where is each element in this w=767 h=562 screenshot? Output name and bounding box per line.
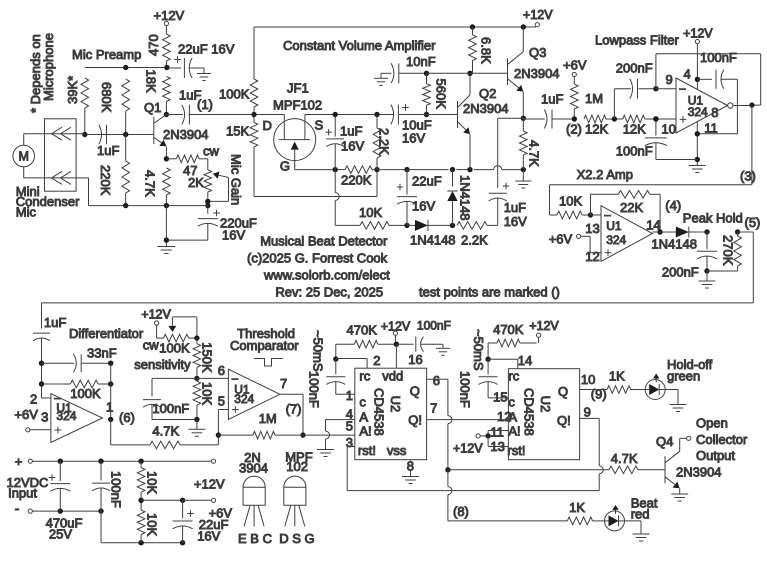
svg-text:560K: 560K [434,79,449,110]
svg-text:Comparator: Comparator [230,338,299,353]
svg-text:Q: Q [558,384,568,399]
svg-text:15: 15 [493,390,507,405]
svg-text:6: 6 [433,373,440,388]
svg-text:U2: U2 [538,396,553,413]
svg-text:c: c [508,394,515,409]
svg-text:Mic Preamp: Mic Preamp [72,47,141,62]
svg-text:6: 6 [218,363,225,378]
svg-text:2N3904: 2N3904 [163,127,209,142]
svg-text:22uF 16V: 22uF 16V [178,42,235,57]
svg-text:324: 324 [56,409,76,423]
svg-text:Differentiator: Differentiator [69,326,144,341]
svg-text:A!: A! [359,423,371,438]
svg-text:Output: Output [696,448,735,463]
svg-text:11: 11 [704,121,718,136]
svg-text:Q!: Q! [408,413,422,428]
svg-text:Peak Hold: Peak Hold [683,211,743,226]
svg-text:www.solorb.com/elect: www.solorb.com/elect [263,268,390,283]
svg-text:10K: 10K [200,382,215,405]
svg-text:rc: rc [359,368,370,383]
svg-text:16V: 16V [341,139,364,154]
svg-text:2.2K: 2.2K [461,233,488,248]
svg-text:~50mS: ~50mS [471,329,486,371]
svg-text:16V: 16V [402,131,425,146]
svg-text:1uF: 1uF [97,143,119,158]
svg-text:Rev: 25 Dec, 2025: Rev: 25 Dec, 2025 [275,285,383,300]
svg-text:4.7K: 4.7K [611,451,638,466]
svg-text:12K: 12K [585,122,608,137]
svg-text:33nF: 33nF [87,346,117,361]
svg-text:4.7K: 4.7K [143,170,158,197]
svg-text:5: 5 [218,393,225,408]
svg-text:1M: 1M [585,91,603,106]
svg-text:1N4148: 1N4148 [651,237,697,252]
svg-text:+12V: +12V [141,308,171,322]
svg-text:S: S [315,118,324,133]
svg-text:+12V: +12V [453,442,483,456]
svg-text:16V: 16V [504,214,527,229]
svg-text:100K: 100K [159,341,190,356]
svg-text:6.8K: 6.8K [479,37,494,64]
svg-text:1uF: 1uF [44,315,66,330]
svg-text:CD4538: CD4538 [371,388,386,436]
svg-text:Musical Beat Detector: Musical Beat Detector [260,234,388,249]
svg-text:22uF: 22uF [412,174,442,189]
svg-text:270K: 270K [721,235,736,266]
svg-text:vss: vss [387,443,407,458]
svg-text:150K: 150K [200,342,215,373]
svg-text:1: 1 [106,400,113,415]
svg-text:Constant Volume Amplifier: Constant Volume Amplifier [283,38,436,53]
svg-text:(8): (8) [453,504,469,519]
svg-text:U1: U1 [606,219,622,233]
svg-text:100K: 100K [219,87,250,102]
svg-text:2N3904: 2N3904 [676,465,722,480]
svg-text:3: 3 [41,410,48,425]
svg-text:10nF: 10nF [406,54,436,69]
svg-text:2N3904: 2N3904 [463,101,509,116]
svg-text:9: 9 [584,405,591,420]
svg-text:U2: U2 [388,396,403,413]
svg-text:9: 9 [666,72,673,87]
svg-text:Q4: Q4 [656,434,673,449]
svg-text:4.7K: 4.7K [527,140,542,167]
svg-text:1K: 1K [569,500,585,515]
svg-text:-: - [15,500,20,516]
svg-text:16: 16 [408,352,422,367]
svg-text:(7): (7) [286,402,302,417]
svg-text:Open: Open [696,416,728,431]
svg-text:Lowpass Filter: Lowpass Filter [595,33,679,48]
svg-text:10: 10 [581,372,595,387]
svg-text:100nF: 100nF [307,371,322,408]
svg-text:12K: 12K [623,122,646,137]
svg-text:100nF: 100nF [700,50,737,65]
svg-text:Microphone: Microphone [41,33,56,101]
svg-text:+12V: +12V [154,8,185,23]
svg-text:+6V: +6V [14,407,38,422]
svg-text:200nF: 200nF [662,265,699,280]
svg-text:1uF: 1uF [340,124,362,139]
svg-text:2.2K: 2.2K [377,128,392,155]
svg-text:M: M [18,150,28,164]
svg-text:cw: cw [143,338,160,353]
svg-text:A!: A! [508,423,520,438]
svg-text:rst!: rst! [507,443,525,458]
svg-text:(5): (5) [745,215,761,230]
svg-text:cw: cw [203,144,220,159]
svg-text:100nF: 100nF [417,319,451,333]
svg-text:102: 102 [286,459,308,474]
svg-text:green: green [667,368,700,383]
svg-text:vdd: vdd [382,368,403,383]
svg-text:12: 12 [497,409,511,424]
svg-text:D S G: D S G [279,531,314,546]
svg-text:(c)2025 G. Forrest Cook: (c)2025 G. Forrest Cook [247,251,388,266]
svg-text:220K: 220K [98,165,113,196]
svg-text:11: 11 [490,425,504,440]
svg-text:470K: 470K [493,322,524,337]
svg-text:2: 2 [373,353,380,368]
svg-text:Q1: Q1 [144,100,161,115]
svg-text:5: 5 [346,419,353,434]
svg-text:Mic: Mic [16,205,37,220]
svg-text:2: 2 [30,392,37,407]
svg-text:test points are marked (): test points are marked () [419,285,560,300]
svg-text:~50mS: ~50mS [311,330,326,372]
svg-text:324: 324 [234,392,254,406]
svg-text:Collector: Collector [696,432,748,447]
svg-text:12: 12 [585,249,599,264]
svg-text:470: 470 [146,34,161,56]
svg-text:1K: 1K [609,368,625,383]
svg-text:2K: 2K [188,175,204,190]
svg-text:16V: 16V [222,228,245,243]
svg-text:c: c [359,394,366,409]
svg-text:8: 8 [711,105,718,120]
svg-text:14: 14 [518,353,532,368]
svg-text:4: 4 [684,67,691,82]
svg-text:+: + [15,454,23,469]
svg-text:100nF: 100nF [458,371,473,408]
svg-text:(3): (3) [740,169,756,184]
svg-text:7: 7 [430,400,437,415]
svg-text:1M: 1M [259,411,277,426]
svg-text:10K: 10K [559,194,582,209]
svg-text:470K: 470K [347,322,378,337]
svg-text:1N4148: 1N4148 [458,175,473,221]
svg-text:100nF: 100nF [616,144,653,159]
svg-text:39K*: 39K* [65,76,80,104]
svg-text:7: 7 [280,376,287,391]
svg-text:MPF102: MPF102 [273,98,322,113]
svg-text:(4): (4) [665,198,681,213]
svg-text:(1): (1) [197,97,213,112]
svg-text:CD4538: CD4538 [521,388,536,436]
svg-text:3904: 3904 [239,461,268,476]
svg-text:1uF: 1uF [541,92,563,107]
svg-text:Q2: Q2 [479,86,496,101]
svg-text:1: 1 [346,388,353,403]
svg-text:+6V: +6V [563,58,587,73]
svg-text:25V: 25V [49,527,72,542]
svg-text:2N3904: 2N3904 [514,66,560,81]
svg-text:E B C: E B C [238,531,272,546]
svg-text:100K: 100K [70,386,101,401]
svg-text:324: 324 [688,105,708,119]
svg-text:Input: Input [8,486,37,501]
svg-text:+12V: +12V [529,319,559,333]
svg-text:100nF: 100nF [152,401,189,416]
svg-text:1N4148: 1N4148 [410,233,456,248]
svg-text:rst!: rst! [358,443,376,458]
svg-text:10K: 10K [145,513,160,536]
svg-text:Q3: Q3 [529,45,546,60]
svg-text:1uF: 1uF [504,200,526,215]
svg-text:324: 324 [606,233,626,247]
svg-text:Q: Q [410,384,420,399]
svg-text:10: 10 [661,122,675,137]
svg-text:15K: 15K [226,124,249,139]
svg-text:sensitivity: sensitivity [134,357,191,372]
svg-text:+12V: +12V [194,477,225,492]
svg-text:18K: 18K [143,70,158,93]
svg-text:Mic Gain: Mic Gain [229,154,244,205]
svg-text:G: G [280,159,290,174]
svg-text:22K: 22K [620,200,643,215]
svg-text:+6V: +6V [549,232,573,247]
svg-text:D: D [263,118,272,133]
svg-text:(9): (9) [591,387,607,402]
svg-text:16V: 16V [197,529,220,544]
svg-text:10K: 10K [145,471,160,494]
svg-text:red: red [631,507,650,522]
svg-text:+12V: +12V [523,8,553,22]
svg-text:–: – [680,83,687,95]
svg-text:(6): (6) [119,410,135,425]
svg-text:4.7K: 4.7K [152,424,179,439]
svg-text:100nF: 100nF [109,471,124,508]
svg-text:(2): (2) [566,122,582,137]
svg-text:JF1: JF1 [287,81,309,96]
svg-text:+12V: +12V [683,27,713,41]
svg-text:680K: 680K [99,82,114,113]
svg-text:Q!: Q! [557,413,571,428]
svg-text:16V: 16V [412,199,435,214]
svg-text:13: 13 [585,221,599,236]
svg-text:10K: 10K [359,205,382,220]
svg-text:X2.2 Amp: X2.2 Amp [577,167,633,182]
svg-text:rc: rc [508,368,519,383]
svg-text:200nF: 200nF [616,61,653,76]
svg-text:220K: 220K [341,173,372,188]
